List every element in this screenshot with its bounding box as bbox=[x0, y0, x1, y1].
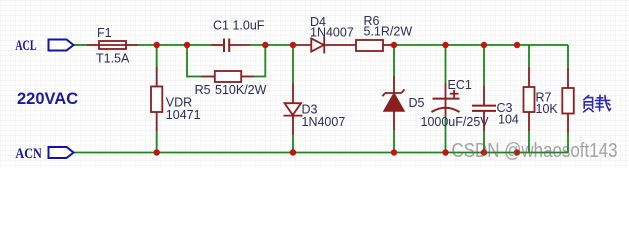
port ACN bbox=[49, 147, 74, 158]
svg-text:T1.5A: T1.5A bbox=[96, 52, 130, 66]
resistor R7 bbox=[528, 45, 530, 153]
svg-text:CSDN @whaosoft143: CSDN @whaosoft143 bbox=[452, 139, 618, 162]
capacitor C3 bbox=[483, 45, 485, 153]
fuse F1 bbox=[87, 41, 138, 49]
svg-text:1000uF/25V: 1000uF/25V bbox=[421, 115, 490, 129]
zener diode D5 bbox=[393, 45, 395, 153]
svg-text:1N4007: 1N4007 bbox=[310, 26, 354, 40]
wire bottom rail bbox=[74, 152, 568, 154]
svg-text:D5: D5 bbox=[409, 96, 425, 110]
load label 负载 (drawn glyphs) bbox=[584, 95, 611, 112]
svg-text:EC1: EC1 bbox=[448, 78, 472, 92]
wire top rail bbox=[74, 44, 568, 46]
resistor R5 (parallel loop) bbox=[187, 45, 265, 77]
varistor VDR bbox=[156, 45, 158, 153]
svg-text:R5: R5 bbox=[195, 83, 211, 97]
svg-text:104: 104 bbox=[498, 113, 519, 127]
capacitor C1 bbox=[211, 39, 250, 53]
svg-text:1N4007: 1N4007 bbox=[302, 115, 346, 129]
svg-text:C1 1.0uF: C1 1.0uF bbox=[213, 19, 265, 33]
svg-text:ACN: ACN bbox=[15, 146, 42, 162]
diode D3 bbox=[292, 45, 294, 153]
svg-text:10K: 10K bbox=[536, 102, 559, 116]
junction dots bottom rail bbox=[154, 149, 521, 155]
load resistor bbox=[567, 45, 569, 153]
svg-text:10471: 10471 bbox=[166, 108, 201, 122]
port ACL bbox=[49, 40, 74, 51]
svg-text:F1: F1 bbox=[97, 26, 112, 40]
junction dots top rail bbox=[154, 42, 521, 48]
resistor R6 bbox=[356, 40, 394, 51]
svg-text:220VAC: 220VAC bbox=[17, 90, 78, 108]
svg-text:ACL: ACL bbox=[15, 38, 37, 54]
electrolytic capacitor EC1 bbox=[445, 45, 447, 153]
diode D4 bbox=[293, 37, 356, 54]
svg-text:5.1R/2W: 5.1R/2W bbox=[364, 25, 413, 39]
svg-text:510K/2W: 510K/2W bbox=[215, 83, 267, 97]
